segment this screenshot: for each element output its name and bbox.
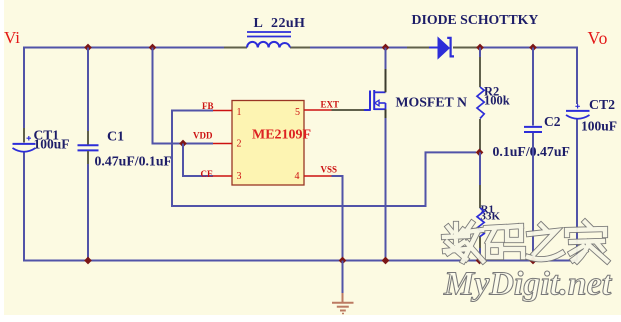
junction dot top rail x88 xyxy=(84,44,92,52)
wire: C1 upper olive stub xyxy=(87,131,89,145)
svg-text:100uF: 100uF xyxy=(581,119,617,134)
junction dot top rail x152 xyxy=(149,44,157,52)
wire: diode anode pin lead (olive) xyxy=(407,47,429,49)
wire: CT1 lower lead to ground rail xyxy=(23,153,25,261)
svg-text:MOSFET N: MOSFET N xyxy=(396,95,467,110)
inductor L winding xyxy=(247,42,290,48)
wire: VDD branch from top rail xyxy=(153,48,214,144)
junction dot ground rail x88 xyxy=(84,257,92,265)
svg-text:L 22uH: L 22uH xyxy=(254,16,306,31)
svg-text:5: 5 xyxy=(295,107,300,118)
diode D1 schottky symbol xyxy=(438,38,449,59)
svg-text:DIODE SCHOTTKY: DIODE SCHOTTKY xyxy=(412,12,539,27)
junction dot ground rail x533 xyxy=(529,257,537,265)
wire: top rail left segment Vi to inductor xyxy=(24,48,224,141)
svg-text:C2: C2 xyxy=(544,114,561,129)
svg-text:VSS: VSS xyxy=(321,165,338,175)
wire: ground rail bottom xyxy=(23,260,577,262)
junction dot VDD x183 xyxy=(179,140,187,148)
wire: diode anode stub blue xyxy=(429,47,438,49)
op-amp U1 ME2109F body xyxy=(232,101,304,186)
junction dot ground rail x480 xyxy=(476,257,484,265)
junction dot ground rail x342 xyxy=(339,257,347,265)
wire: C1 lower olive stub xyxy=(87,151,89,164)
wire: C2 branch xyxy=(532,48,534,126)
svg-text:CT2: CT2 xyxy=(589,97,615,112)
wire: VSS to ground drop xyxy=(332,176,343,261)
svg-text:Vi: Vi xyxy=(4,28,20,47)
svg-text:0.1uF/0.47uF: 0.1uF/0.47uF xyxy=(493,144,570,159)
wire: MOSFET drain to top rail xyxy=(385,48,387,70)
wire: MOSFET source down to ground rail xyxy=(385,109,387,118)
svg-text:0.47uF/0.1uF: 0.47uF/0.1uF xyxy=(95,154,172,169)
wire: C1 branch upper xyxy=(87,48,89,132)
svg-text:100k: 100k xyxy=(484,94,510,108)
resistor R1 zigzag xyxy=(477,208,484,237)
svg-text:VDD: VDD xyxy=(193,131,213,141)
pin 1 FB xyxy=(213,110,232,112)
ground symbol xyxy=(342,261,344,294)
resistor R2 zigzag xyxy=(477,87,484,119)
pin 4 VSS xyxy=(304,175,332,177)
wire: inductor right pin lead (olive) xyxy=(290,47,310,49)
svg-text:3: 3 xyxy=(237,171,242,182)
pin 5 EXT xyxy=(304,109,332,111)
capacitor C1 symbol xyxy=(78,144,99,146)
wire: EXT gate elbow blue xyxy=(364,109,370,111)
resistor R1 leads xyxy=(479,152,481,185)
svg-text:EXT: EXT xyxy=(321,100,340,110)
inductor L core bars xyxy=(247,31,291,33)
junction dot FB divider x480 y152 xyxy=(476,149,484,157)
wire: diode cathode pin lead (olive) xyxy=(453,47,479,49)
svg-text:Vo: Vo xyxy=(588,28,609,48)
wire: inductor left pin lead (olive) xyxy=(224,47,247,49)
wire: CT2 lower lead xyxy=(576,120,578,261)
junction dot ground rail x385 xyxy=(382,257,390,265)
wire: top rail inductor to diode xyxy=(310,47,407,49)
capacitor CT2 polarized symbol xyxy=(575,104,580,109)
svg-text:4: 4 xyxy=(295,171,300,182)
svg-text:2: 2 xyxy=(237,139,242,150)
junction dot top rail x480 (diode cathode) xyxy=(476,44,484,52)
svg-text:FB: FB xyxy=(202,101,214,111)
wire: CE tie to VDD xyxy=(183,144,213,177)
svg-text:100uF: 100uF xyxy=(34,137,70,152)
watermark MyDigit.net xyxy=(443,266,613,303)
wire: top rail diode to output corner xyxy=(479,48,577,105)
capacitor C2 symbol xyxy=(524,126,542,128)
svg-text:CE: CE xyxy=(201,169,214,179)
wire: C1 branch lower xyxy=(87,164,89,261)
wire: CT1 upper olive stub xyxy=(23,128,25,143)
pin 3 CE xyxy=(213,175,232,177)
wire: FB net from pin1 left and around xyxy=(172,111,476,207)
pin 2 VDD xyxy=(213,143,232,145)
junction dot top rail x385 (MOSFET drain) xyxy=(382,44,390,52)
junction dot top rail x533 (C2) xyxy=(529,44,537,52)
svg-text:1: 1 xyxy=(237,107,242,118)
capacitor CT1 polarized symbol xyxy=(27,136,32,141)
wire: EXT to MOSFET gate (olive) xyxy=(332,109,365,111)
svg-text:MyDigit.net: MyDigit.net xyxy=(443,266,613,303)
svg-text:ME2109F: ME2109F xyxy=(252,128,311,143)
svg-text:C1: C1 xyxy=(107,130,124,145)
transistor Q1 NMOS symbol xyxy=(369,91,371,111)
watermark CJK 数码之家 (drawn as outlined strokes) xyxy=(444,222,607,261)
resistor R2 leads (olive) xyxy=(479,57,481,87)
